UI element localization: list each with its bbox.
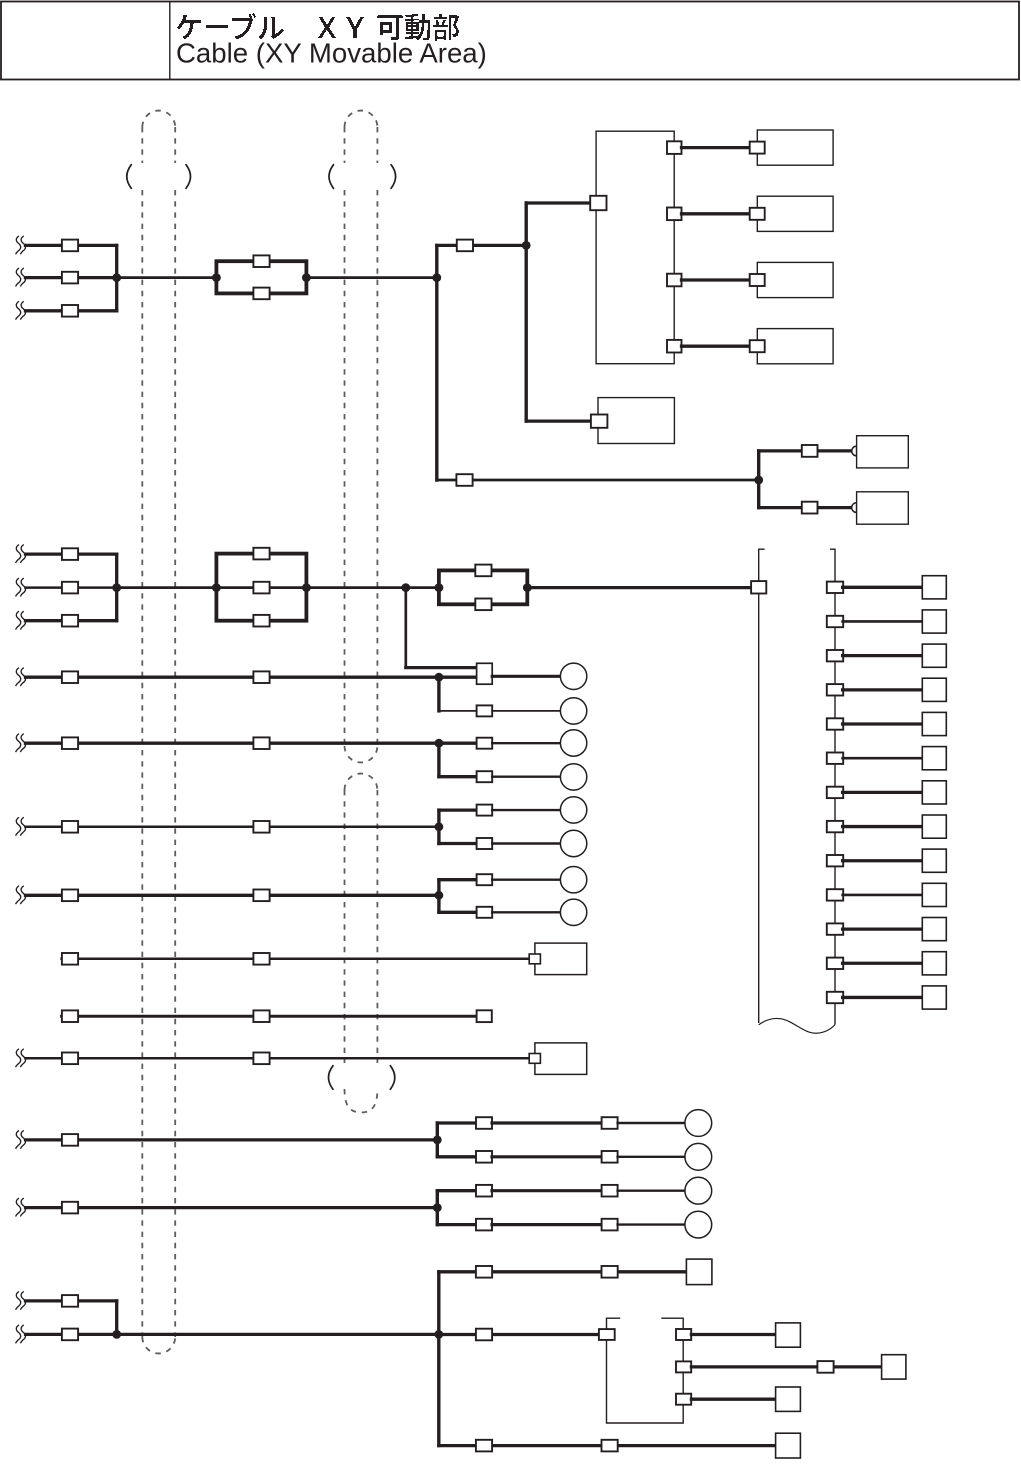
wire branch down from B2 [404,588,407,668]
wire C to terminal panel [527,586,751,589]
terminal block row 2 [922,610,946,633]
ring terminal Q1b [685,1143,712,1170]
wire panel row 9 [843,859,923,862]
wire to sensor 3 [682,278,751,281]
connector Q2a first [476,1185,492,1197]
connector pair4 upper [477,874,493,885]
wire housing out1 [691,1333,775,1336]
junction group D [112,1330,121,1339]
connector splice C4 [62,890,78,902]
connector splice B1 [62,548,78,560]
connector device S3 [529,1054,540,1064]
wire bottom row1 [439,1270,687,1273]
junction group B [112,583,121,592]
cable duct right lower - bottom cap [345,1089,378,1113]
wire D2 stub [26,1333,117,1336]
connector panel row 6 [827,753,843,764]
connector row2 first [476,1329,492,1341]
wire pair1 to ring b [492,710,560,712]
connector box outlet 4 [667,340,682,353]
break mark wire B3 [16,611,26,629]
clamp mark left duct opening paren [127,165,132,189]
wire group D junction bar [115,1301,118,1335]
ring terminal 1b [560,698,586,724]
terminal block row 6 [922,747,946,770]
connector panel row 10 [827,889,843,900]
break mark wire D2 [16,1325,26,1343]
cable duct right upper - top cap [345,111,378,127]
wire group A junction bar [115,245,118,310]
terminal block row 1 [922,576,946,599]
connector mid S1 [253,953,269,965]
wire B2 stub [26,586,117,589]
break mark wire Q1 [16,1130,26,1148]
break mark wire C3 [16,817,26,835]
terminal block row 3 [922,644,946,667]
connector mid C4 [253,890,269,902]
break mark wire D1 [16,1291,26,1309]
wire panel row 7 [843,791,923,794]
connector Q1b first [476,1151,492,1163]
wire A2 run to main node [306,276,436,279]
wire to junction box [526,201,596,204]
connector Q1a second [602,1117,618,1129]
sensor box 4 [757,329,833,364]
connector housing out 2 [676,1361,691,1372]
connector housing out 3 [676,1394,691,1405]
junction A left [212,273,221,282]
terminal panel right rail [830,549,835,1024]
wire panel row 2 [843,620,923,623]
junction Q2 [433,1203,442,1212]
cable duct right lower - top cap [345,774,378,790]
wire panel row 5 [843,722,923,725]
wire housing out2 [691,1365,881,1368]
break mark wire C1 [16,668,26,686]
junction pair1 [435,673,444,682]
ring terminal 3b [560,830,586,856]
terminal block row 8 [922,815,946,838]
connector sensor 2 [750,208,765,220]
connector panel row 8 [827,821,843,832]
device box S1 [535,943,587,975]
connector panel row 9 [827,855,843,866]
terminal block row 10 [922,883,946,906]
wire bottom column [437,1272,440,1446]
cable duct right upper - bottom cap [345,746,378,762]
connector panel row 13 [827,992,843,1003]
wire lower pair column [757,451,760,508]
wire sub-branch column [525,203,528,421]
terminal block row 4 [922,678,946,701]
connector splice C1 [62,671,78,683]
connector pair2 lower [477,771,493,782]
connector Q2b second [602,1219,618,1231]
wire A2 stub [26,276,117,279]
break mark wire C2 [16,734,26,752]
wire S1 run [62,958,530,961]
wire main lower run [437,479,759,482]
connector mid C3 [253,821,269,833]
connector housing inlet [599,1329,615,1340]
connector splice D2 [62,1329,78,1341]
cable duct right lower - right side [376,790,378,1063]
junction group A [112,273,121,282]
terminal box h3 [776,1387,801,1411]
break mark wire B2 [16,578,26,596]
sensor box 2 [757,196,833,231]
wire S2 run [62,1015,477,1018]
cable duct left - top cap [142,111,175,127]
connector row1 second [602,1266,618,1278]
terminal box h1 [776,1323,801,1347]
connector B bottom [253,615,269,627]
junction pair2 [435,739,444,748]
clamp mark left duct closing paren [186,165,191,189]
ring terminal 2a [560,730,586,756]
ring terminal Q2b [685,1211,712,1238]
terminal block row 13 [922,986,946,1009]
ring terminal 4a [560,867,586,893]
junction A right [302,273,311,282]
wire panel row 6 [843,757,923,760]
connector splice Q1 [62,1134,78,1146]
clamp mark right duct closing paren [391,165,396,189]
cable duct left - right side upper [174,127,176,163]
connector splice A3 [62,305,78,317]
device box 5 [598,398,674,444]
junction pair4 [435,891,444,900]
wire Q2b lead [437,1223,476,1226]
wire panel row 1 [843,586,923,589]
connector on lower run [456,474,472,486]
title text japanese: Cable XY movable area [177,13,459,41]
wire Q1b lead [437,1155,476,1158]
cable duct right lower - left side [344,790,346,1063]
connector splice C3 [62,821,78,833]
wire pair3 lower lead [439,842,477,845]
wire pair2 to ring b [492,776,560,778]
connector pair3 lower [477,838,493,849]
wire pair3 to ring a [492,809,560,811]
wire pair1 drop [437,677,440,711]
connector on out2 [817,1361,833,1373]
wire C4 long run [26,894,439,897]
wire branch into pair1 connector [406,666,477,669]
wire C2 long run [26,742,439,745]
inline component B (joint) [216,554,306,621]
plug bump motor b [852,503,857,513]
connector row1 first [476,1266,492,1278]
connector mid C1 [253,671,269,683]
junction bottom column [434,1330,443,1339]
clamp mark lower opening paren [329,1066,334,1090]
wire pair2 to ring a [492,742,560,744]
junction C right [523,583,532,592]
title block divider [169,2,171,80]
wire Q2 long run [26,1206,438,1209]
ring terminal Q2a [685,1177,712,1204]
ring terminal Q1a [685,1110,712,1137]
connector panel row 7 [827,787,843,798]
device box S3 [535,1043,587,1075]
clamp mark lower closing paren [390,1066,395,1090]
cable duct right upper - left side a [344,127,346,163]
connector panel row 3 [827,650,843,661]
junction box (thin rect) [596,131,674,364]
cable duct left - left side [141,190,143,1337]
junction C left [435,583,444,592]
connector panel row 12 [827,958,843,969]
break mark wire A3 [16,301,26,319]
connector sensor 1 [750,142,765,154]
connector panel row 5 [827,718,843,729]
wire bottom row3 [439,1444,776,1447]
connector on branch wire [457,240,473,252]
clamp mark right duct opening paren [329,165,334,189]
wire Q2a to ring [618,1189,687,1191]
connector pair3 upper [477,805,493,816]
cable duct left - bottom cap [142,1337,175,1353]
connector B top [253,548,269,560]
connector mid S3 [253,1053,269,1065]
break mark wire A2 [16,268,26,286]
terminal block row 5 [922,712,946,735]
connector panel inlet [751,581,766,593]
wire pair4 lower lead [439,911,477,914]
wire Q2a mid [492,1189,602,1192]
inline component A (ferrite/joint) [216,261,306,293]
wire pair3 riser [437,810,440,843]
wire pair2 lower lead [439,775,477,778]
wire pair4 to ring b [492,911,560,913]
connector A top [253,255,269,267]
sensor box 3 [757,262,833,297]
connector Q1b second [602,1151,618,1163]
connector panel row 1 [827,582,843,593]
wire panel row 10 [843,894,923,897]
connector Q2b first [476,1219,492,1231]
wire Q1b to ring [618,1156,687,1158]
connector panel row 11 [827,923,843,934]
wire panel row 3 [843,654,923,657]
wire A1 stub [26,244,117,247]
wire C3 long run [26,826,439,829]
connector housing out 1 [676,1329,691,1340]
terminal block row 11 [922,918,946,941]
connector pair2 upper [477,738,493,749]
wire D2 long run [117,1333,439,1336]
connector splice D1 [62,1295,78,1307]
sensor box 1 [757,130,833,165]
terminal box row1 [686,1259,712,1285]
terminal box h2 [882,1355,906,1379]
wire panel row 12 [843,962,923,965]
inline component C (joint) [439,570,527,604]
connector Q2a second [602,1185,618,1197]
wire housing out3 [691,1398,775,1401]
connector splice A2 [62,272,78,284]
terminal block row 7 [922,781,946,804]
junction Q1 [433,1136,442,1145]
junction B right [302,583,311,592]
wire Q1a lead [437,1121,476,1124]
break mark wire S3 [16,1049,26,1067]
connector row3 second [602,1440,618,1452]
plug bump motor a [852,446,857,456]
wire panel row 4 [843,688,923,691]
connector mid C2 [253,737,269,749]
wire pair1 upper lead [439,676,479,679]
connector pair4 lower [477,907,493,918]
connector panel row 2 [827,616,843,627]
connector sensor 4 [750,340,765,352]
connector device S1 [529,954,540,964]
wire Q1a mid [492,1121,602,1124]
break mark wire C4 [16,886,26,904]
connector box outlet 3 [667,274,682,287]
cable duct right upper - right side a [376,127,378,163]
wire panel row 11 [843,927,923,930]
connector row3 first [476,1440,492,1452]
wire pair2 drop [437,743,440,777]
wire to motor a [759,449,852,452]
ring terminal 1a [560,663,586,689]
wire Q2 riser [436,1191,439,1225]
ring terminal 2b [560,764,586,790]
connector splice B2 [62,582,78,594]
connector A bottom [253,288,269,300]
terminal box row3 [776,1433,801,1458]
terminal block row 9 [922,849,946,872]
junction branch to pair 1 [401,583,410,592]
wire Q2a lead [437,1189,476,1192]
connector C top [475,565,491,577]
wire pair1 lower lead [439,710,477,712]
wire pair4 riser [437,880,440,913]
terminal block row 12 [922,952,946,975]
connector device box 5 [591,415,608,428]
connector splice C2 [62,737,78,749]
connector B middle [253,582,269,594]
terminal panel left rail [759,549,765,1023]
wire panel row 8 [843,825,923,828]
connector splice A1 [62,240,78,252]
wire pair1 to ring a [492,675,560,678]
wire A2 run to component [117,276,217,279]
junction sub-branch [522,241,531,250]
break mark wire B1 [16,545,26,563]
connector C bottom [475,599,491,611]
svg-text:Cable (XY Movable Area): Cable (XY Movable Area) [176,37,487,68]
wire Q1 riser [436,1123,439,1157]
connector mid S2 [253,1010,269,1022]
ring terminal 3a [560,797,586,823]
connector motor a [802,445,818,457]
wire group B junction bar [115,554,118,621]
wire to sensor 4 [682,345,751,348]
title block border [1,2,1019,80]
wire to motor b [759,506,852,509]
connector pair1 lower [477,705,493,716]
wire to sensor 1 [682,146,751,149]
junction main column / A2 [432,273,441,282]
connector splice S3 [62,1053,78,1065]
connector junction box inlet [590,196,606,210]
connector splice S2 [62,1010,78,1022]
wire C1 long run [26,676,439,679]
connector box outlet 1 [667,141,682,154]
wire pair4 upper lead [439,878,477,881]
junction B left [212,583,221,592]
wire to sensor 2 [682,212,751,215]
wire B2 run through component B [117,586,439,589]
wire S3 run [26,1057,530,1060]
connector pair1 double [477,663,493,684]
wire pair3 upper lead [439,808,477,811]
connector box outlet 2 [667,208,682,221]
wire Q1a to ring [618,1122,687,1124]
motor box a [857,436,909,468]
wire to device box 5 [526,419,598,422]
cable duct right upper - left side [344,190,346,746]
break mark wire Q2 [16,1198,26,1216]
wire B1 stub [26,552,117,555]
connector housing outline [607,1318,684,1423]
cable duct left - right side [174,190,176,1337]
ring terminal 4b [560,899,586,925]
wire A3 stub [26,309,117,312]
connector splice B3 [62,615,78,627]
junction lower pair [754,476,763,485]
connector motor b [802,502,818,514]
wire D1 stub [26,1299,117,1302]
wire Q2b to ring [618,1223,687,1225]
connector splice Q2 [62,1202,78,1214]
motor box b [857,492,909,524]
connector Q1a first [476,1117,492,1129]
connector panel row 4 [827,684,843,695]
wire Q1b mid [492,1155,602,1158]
wire panel row 13 [843,996,923,999]
cable duct right upper - right side [376,190,378,746]
wire B3 stub [26,619,117,622]
terminal panel torn bottom [759,1018,835,1033]
connector end S2 [477,1010,492,1022]
connector sensor 3 [750,274,765,286]
wire pair3 to ring b [492,842,560,844]
wire to sub-branch node [437,244,526,247]
wire main column upper [435,245,438,480]
connector splice S1 [62,953,78,965]
wire Q2b mid [492,1223,602,1226]
cable duct left - left side upper [141,127,143,163]
break mark wire A1 [16,236,26,254]
wire pair4 to ring a [492,879,560,881]
wire Q1 long run [26,1138,438,1141]
wire pair2 upper lead [439,742,479,745]
wire bottom row2 [439,1333,600,1336]
junction pair3 [435,822,444,831]
